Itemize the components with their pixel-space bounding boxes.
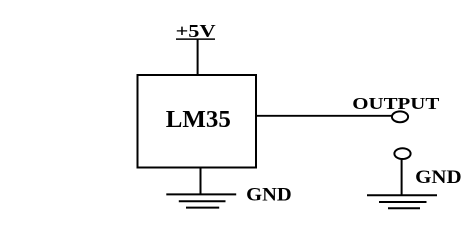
svg-text:+5V: +5V — [176, 21, 216, 41]
svg-text:OUTPUT: OUTPUT — [352, 94, 439, 113]
svg-text:LM35: LM35 — [166, 107, 231, 133]
ground (right) — [367, 195, 437, 208]
OUTPUT terminal circle — [392, 111, 408, 122]
IC LM35 body — [138, 75, 257, 168]
power rail bar — [176, 38, 215, 40]
wire: right terminal to ground — [401, 160, 403, 196]
ground (left) — [166, 194, 236, 207]
svg-text:GND: GND — [415, 167, 462, 188]
wire: LM35 output pin to OUTPUT terminal — [255, 115, 393, 117]
wire: LM35 ground pin to ground — [200, 168, 202, 195]
svg-text:GND: GND — [246, 184, 292, 205]
wire: +5V bar to LM35 top pin — [197, 39, 199, 75]
right terminal circle — [394, 148, 410, 159]
